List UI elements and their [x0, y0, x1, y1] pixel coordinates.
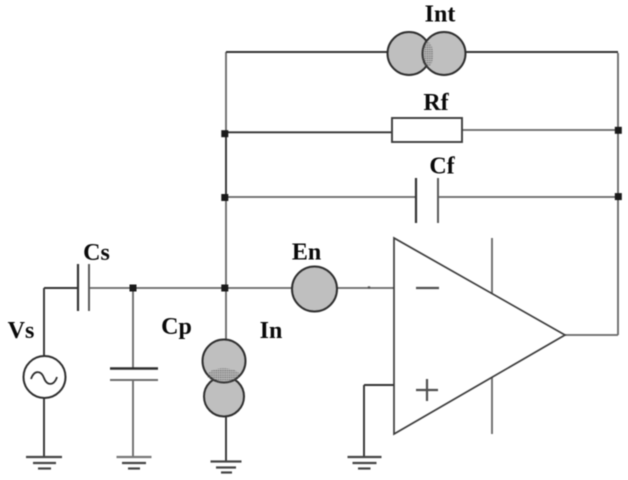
svg-text:En: En — [292, 240, 321, 266]
svg-text:Rf: Rf — [423, 90, 449, 116]
svg-text:In: In — [260, 318, 283, 344]
svg-text:Cp: Cp — [161, 314, 192, 340]
svg-text:Cs: Cs — [83, 240, 110, 266]
svg-text:Int: Int — [425, 2, 456, 28]
svg-text:Vs: Vs — [8, 318, 35, 344]
svg-text:Cf: Cf — [429, 154, 455, 180]
